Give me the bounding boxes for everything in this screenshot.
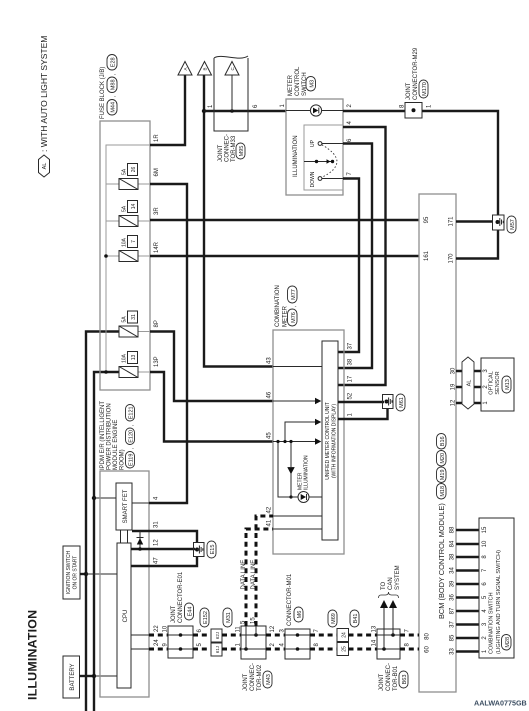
svg-text:60: 60 [425,646,431,653]
terminal 170 [449,253,455,264]
svg-text:M170: M170 [422,82,428,96]
svg-text:24: 24 [154,639,160,646]
wire meter 45 internal with diode [273,438,321,445]
svg-text:38: 38 [450,553,456,560]
ground M61 [383,394,406,411]
pin 3 M01 [280,629,286,633]
wire CAN line A B01 to BCM [400,634,419,637]
svg-text:80: 80 [425,633,431,640]
pin 1 M29 [427,104,433,108]
svg-text:FUSE BLOCK (J/B): FUSE BLOCK (J/B) [100,67,106,119]
wire CPU CAN terminal 22 [131,634,149,636]
wire BCM 170 to ground M57 [456,230,498,259]
svg-text:M6: M6 [297,611,303,619]
svg-text:5A: 5A [122,316,128,323]
wire 14R to BCM 161 [150,255,419,257]
svg-text:88: 88 [450,526,456,533]
label JOINT CONNECTOR-M02 [243,663,272,691]
svg-text:AL: AL [467,380,473,387]
pin 7 meter control switch [347,172,353,176]
wire to CAN system lower [389,600,397,635]
wire fuse outputs to block edge [138,184,150,372]
CPU box [117,543,131,688]
svg-text:39: 39 [450,580,456,587]
wire fuse 7 tap [106,255,119,257]
svg-text:M77: M77 [291,289,297,300]
pin 2 meter control switch [347,104,353,108]
svg-text:B41: B41 [353,614,359,624]
fuse 13 10A [119,352,138,378]
svg-text:24: 24 [341,632,347,638]
svg-text:38: 38 [348,358,354,365]
svg-text:B63: B63 [402,675,408,685]
svg-text:37: 37 [450,621,456,628]
svg-text:CPU: CPU [123,610,129,623]
svg-text:87: 87 [450,607,456,614]
terminal 13P [154,356,160,367]
svg-text:15: 15 [482,526,488,533]
svg-text:BCM (BODY CONTROL MODULE): BCM (BODY CONTROL MODULE) [437,503,446,619]
pin 8 M29 [400,104,406,108]
svg-text:(WITH INFORMATION DISPLAY): (WITH INFORMATION DISPLAY) [332,404,338,479]
svg-text:CONTROL: CONTROL [295,66,301,96]
combination switch box COMBINATION SWITCH [479,518,514,658]
pin 5 M02 [241,620,247,624]
led switch illumination [286,105,343,116]
terminal 1 [348,413,354,417]
wire 3R to BCM 95 [150,219,419,221]
terminal 95 [424,216,430,223]
svg-text:14: 14 [131,204,137,210]
svg-text:85: 85 [450,634,456,641]
svg-text:3R: 3R [154,207,160,215]
pin 4 meter control switch [347,121,353,125]
wire IPDM terminal 31 to ground [132,531,197,543]
lamp meter illumination [291,455,322,503]
BCM box [419,194,456,692]
svg-text:SYSTEM: SYSTEM [395,565,401,590]
pin 8 B01 [405,643,411,647]
svg-text:UP: UP [310,139,316,147]
connector 62J [211,629,222,642]
wire CAN line B IPDM to E01 [149,648,168,651]
terminal 22 [154,625,160,632]
label DATA LINE lower [251,560,257,590]
AL hexagon note [39,36,50,177]
switch common pole [304,159,334,163]
svg-text:8P: 8P [154,320,160,327]
wire meter 45 branch to lamp [278,442,291,498]
wire CAN line A 24 to B01 [349,634,378,637]
terminal 24 [154,639,160,646]
title ILLUMINATION [26,610,40,700]
svg-text:E120: E120 [129,430,135,443]
svg-text:IGNITION SWITCH: IGNITION SWITCH [66,550,72,594]
svg-text:M69: M69 [331,613,337,624]
svg-text:14R: 14R [154,241,160,253]
svg-text:13: 13 [372,625,378,632]
terminal 12 [154,539,160,546]
wire fuse 26 tap [106,183,119,185]
svg-text:1R: 1R [154,134,160,142]
svg-text:BATTERY: BATTERY [70,663,76,690]
svg-text:M31: M31 [226,612,232,623]
AL hexagon band [462,357,474,409]
pin 14 B01 [372,639,378,646]
wire 6M to IPDM terminal 4 [149,184,187,503]
svg-text:11: 11 [236,626,242,633]
node bus fuse 7 [104,254,108,258]
wire IPDM terminal 12 to ground [131,548,195,550]
label B41 [350,610,359,627]
svg-text:(LIGHTING AND TURN SIGNAL SWIT: (LIGHTING AND TURN SIGNAL SWITCH) [496,550,502,654]
svg-text:CONNEC-: CONNEC- [225,134,231,162]
svg-text:43: 43 [267,357,273,364]
terminal 41 [267,519,273,526]
wire fuse block internal bus [106,145,150,372]
svg-text:12: 12 [270,625,276,632]
svg-text:SMART FET: SMART FET [123,489,129,523]
terminal 1R [154,134,160,142]
triangle A [178,62,192,76]
svg-text:CONNECTOR-M01: CONNECTOR-M01 [287,573,293,626]
svg-text:COMBINATION SWITCH: COMBINATION SWITCH [489,592,495,654]
svg-text:ILLUMINATION: ILLUMINATION [293,135,299,177]
svg-text:JOINT: JOINT [379,673,385,691]
svg-text:M88: M88 [111,79,117,90]
pin 1 optical [483,401,489,405]
wire M29 to ground M57 [422,111,498,215]
svg-text:17: 17 [348,375,354,382]
svg-text:E44: E44 [188,607,194,617]
svg-text:A: A [183,67,188,70]
terminal 47 [154,557,160,564]
svg-text:10A: 10A [122,353,128,363]
wire fuse 14 tap [106,220,119,222]
pin 13 B01 [372,625,378,632]
wire ignition to CPU [86,573,117,575]
label E152 [200,608,209,627]
terminal 17 [348,375,354,382]
wire BCM 12 to optical sensor [456,402,481,404]
svg-text:M76: M76 [291,312,297,323]
wire 13P to meter 45 [150,372,273,442]
svg-text:95: 95 [424,216,430,223]
terminal 14R [154,241,160,253]
terminal 46 [267,391,273,398]
svg-text:13: 13 [131,355,137,361]
svg-text:CONNECTOR-E01: CONNECTOR-E01 [178,571,184,623]
svg-text:E121: E121 [129,406,135,419]
joint connector M02 [241,626,266,659]
svg-text:ROOM): ROOM) [120,449,126,470]
svg-text:22: 22 [154,625,160,632]
wire M33 to triangle C [231,75,233,111]
pin 2 optical [483,385,489,389]
connector 61J [211,643,222,656]
svg-text:12: 12 [451,399,457,406]
svg-text:CAN: CAN [388,577,394,590]
wire battery to smart fet [94,497,116,499]
svg-text:E152: E152 [203,611,209,624]
pin 4 M01 [280,643,286,647]
svg-text:161: 161 [424,250,430,261]
switch contact UP [310,139,343,147]
svg-text:JOINT: JOINT [171,605,177,623]
fuse 26 5A [119,164,138,190]
ground M57 [493,215,517,233]
fuse 14 5A [119,201,138,227]
svg-text:7: 7 [131,240,137,243]
joint connector E01 [168,626,193,658]
meter control switch box [286,99,343,195]
pin 8 M01 [314,643,320,647]
svg-text:CONNEC-: CONNEC- [250,663,256,691]
wire CAN line A E01 to 62J [193,634,211,637]
terminal 45 [267,432,273,439]
wire CAN line B M01 to 25 [310,648,337,651]
svg-text:B16: B16 [440,436,446,446]
pin 9 E01 [163,643,169,647]
pin 10 E01 [163,625,169,632]
wire smart fet output to terminal 4 [132,502,149,504]
unified meter control unit box [322,341,338,540]
node M33 internal [230,109,234,113]
svg-text:31: 31 [131,314,137,320]
label JOINT CONNECTOR-E01 [171,571,194,623]
svg-text:JOINT: JOINT [218,144,224,162]
pin 7 B01 [405,629,411,633]
svg-text:M61: M61 [399,397,405,408]
wire ignition stub [80,573,86,575]
wire meter 41 internal [273,528,322,530]
terminal 12 BCM [451,399,457,406]
terminal 19 [451,383,457,390]
node smart fet feed junction [92,496,96,500]
wire BCM 171 to ground M57 [456,220,493,222]
wire CAN line A 62J to M02 [222,634,241,637]
svg-text:45: 45 [267,432,273,439]
svg-text:TOR-B01: TOR-B01 [393,665,399,691]
pin 6 M33 [253,104,259,108]
svg-text:CONNECTOR-M29: CONNECTOR-M29 [413,47,419,100]
wire meter switch pin 4 to unified 17 [338,127,386,385]
wire CPU CAN terminal 24 [131,648,149,650]
svg-text:10: 10 [163,625,169,632]
svg-text:52: 52 [348,392,354,399]
node bus battery feed [104,370,108,374]
terminal 30 [451,367,457,374]
label BCM (BODY CONTROL MODULE) [437,434,447,620]
node E15 ground junction [195,548,199,552]
terminal 171 [449,216,455,227]
svg-text:M20: M20 [440,453,446,464]
node net B junction [202,109,206,113]
wire data line to meter 41 [246,529,273,626]
wire unified 52 to ground M61 [338,401,384,403]
pin 6 meter control switch [347,138,353,142]
BCM terminals to combination switch [450,526,456,655]
wires BCM to combination switch [456,530,479,652]
wire unified 1 to ground M61 [338,408,388,419]
pin 1 meter control switch [280,104,286,108]
label M69 [328,610,337,627]
switch contact DOWN [310,171,343,187]
switch dashed arc [322,145,337,178]
node ignition rail junction [84,572,88,576]
pin 15 M02 [251,617,257,624]
svg-text:12: 12 [154,539,160,546]
terminal 6M [154,168,160,176]
wire IPDM terminal 47 to ground [131,556,197,566]
terminal 60 [425,646,431,653]
svg-text:ON OR START: ON OR START [73,556,79,590]
label CONNECTOR-M01 [287,573,303,626]
svg-text:M43: M43 [266,674,272,685]
joint connector M33 [214,56,248,131]
svg-text:84: 84 [450,540,456,547]
svg-text:61J: 61J [215,646,220,653]
svg-text:13P: 13P [154,356,160,367]
terminal 38 [348,358,354,365]
svg-text:46: 46 [267,391,273,398]
fuse 7 10A [119,236,138,262]
wire ignition rail [86,332,120,711]
wire CAN line A IPDM to E01 [149,634,168,637]
terminal 43 [267,357,273,364]
ground E15 [194,541,217,558]
terminal 161 [424,250,430,261]
pin 12 M02 [270,625,276,632]
triangle B [198,62,212,76]
svg-text:5A: 5A [122,205,128,212]
brace TO CAN SYSTEM [379,592,399,598]
fuse block box FUSE BLOCK (J/B) [100,121,150,390]
label FUSE BLOCK (J/B) [100,55,117,120]
wire 1R to triangle A [150,75,185,145]
illumination inner box [293,125,343,190]
wire data line to meter 42 [256,516,273,626]
svg-text:SENSOR: SENSOR [495,371,501,394]
wire battery stub [80,675,95,677]
wire pin 2 to M29 [343,110,405,112]
wire meter 42 internal [273,515,322,517]
smart fet box SMART FET [116,483,132,530]
label M31 [223,608,232,627]
fuse 31 5A [119,311,138,337]
wire meter 46 internal with diode [273,398,321,405]
svg-text:E28: E28 [111,57,117,67]
svg-text:UNIFIED METER CONTROL UNIT: UNIFIED METER CONTROL UNIT [325,402,331,480]
svg-text:M19: M19 [440,469,446,480]
label JOINT CONNECTOR-M29 [406,47,428,100]
wire BCM 30 to optical sensor [456,370,481,372]
svg-text:METER: METER [288,74,294,96]
terminal 42 [267,506,273,513]
svg-text:AALWA0775GB: AALWA0775GB [474,699,527,708]
svg-text:33: 33 [450,648,456,655]
svg-text:TO: TO [381,581,387,590]
svg-text:TOR-M02: TOR-M02 [257,664,263,691]
wire meter switch pin 6 to unified 38 [338,144,372,369]
svg-text:SWITCH: SWITCH [302,72,308,96]
wire to CAN system upper [380,600,388,649]
svg-text:M18: M18 [440,486,446,497]
pin 5 E01 [197,643,203,647]
svg-text:171: 171 [449,216,455,227]
terminal 8P [154,320,160,327]
svg-text:42: 42 [267,506,273,513]
svg-text:OPTICAL: OPTICAL [489,371,495,395]
pin 1 M02 [236,643,242,647]
svg-text:B: B [203,67,208,70]
svg-text:M44: M44 [111,102,117,113]
label DATA LINE upper [241,560,247,590]
svg-text:10: 10 [482,540,488,547]
svg-text:POWER DISTRIBUTION: POWER DISTRIBUTION [107,403,113,470]
svg-text:ILLUMINATION: ILLUMINATION [304,455,310,490]
joint connector B01 [377,629,400,659]
wire CAN line B B01 to BCM [400,648,419,651]
label METER CONTROL SWITCH [288,66,316,96]
svg-text:25: 25 [341,646,347,652]
wire CAN line A M02 to M01 [266,634,285,637]
label TO CAN SYSTEM [381,565,401,590]
label COMBINATION METER [275,285,298,327]
svg-text:M28: M28 [505,637,511,648]
IPDM E/R box [100,471,149,697]
svg-text:41: 41 [267,519,273,526]
svg-text:CONNEC-: CONNEC- [386,663,392,691]
optical sensor box OPTICAL SENSOR [481,358,514,411]
ignition switch IGNITION SWITCH ON OR START [63,546,80,599]
wire net B to meter control switch pin 1 [204,110,286,112]
wire meter 45 branch through diode [288,442,295,498]
wire net B to meter 43 and triangle B [204,75,273,367]
svg-text:ILLUMINATION: ILLUMINATION [26,610,40,700]
svg-text:34: 34 [450,567,456,574]
wire battery to CPU [94,675,117,677]
connector M01 [285,629,310,659]
svg-text:19: 19 [451,383,457,390]
svg-text:E15: E15 [210,545,216,555]
connector pin 25 [337,643,349,656]
wire meter 43 internal [273,366,322,368]
svg-text:: WITH AUTO LIGHT SYSTEM: : WITH AUTO LIGHT SYSTEM [39,36,49,152]
wire meter 45 branch middle diode [285,419,321,442]
svg-text:DOWN: DOWN [310,171,316,187]
battery BATTERY [63,656,80,698]
svg-text:14: 14 [372,639,378,646]
wire CAN line B 61J to M02 [222,648,241,651]
svg-text:MODULE ENGINE: MODULE ENGINE [113,420,119,470]
svg-text:M57: M57 [510,219,516,230]
svg-text:10A: 10A [122,237,128,247]
label JOINT CONNECTOR-B01 [379,663,408,691]
wire 8P to meter 46 [150,332,273,402]
svg-text:26: 26 [131,167,137,173]
svg-text:JOINT: JOINT [243,673,249,691]
wire CAN line B M02 to M01 [266,648,285,651]
connector pin 24 [337,629,349,642]
figure id AALWA0775GB [474,699,527,708]
label IPDM E/R [100,401,135,470]
terminal 3R [154,207,160,215]
label JOINT CONNECTOR-M33 [218,134,245,162]
combination meter box [273,330,344,554]
svg-text:30: 30 [451,367,457,374]
combination switch pins [482,526,488,653]
